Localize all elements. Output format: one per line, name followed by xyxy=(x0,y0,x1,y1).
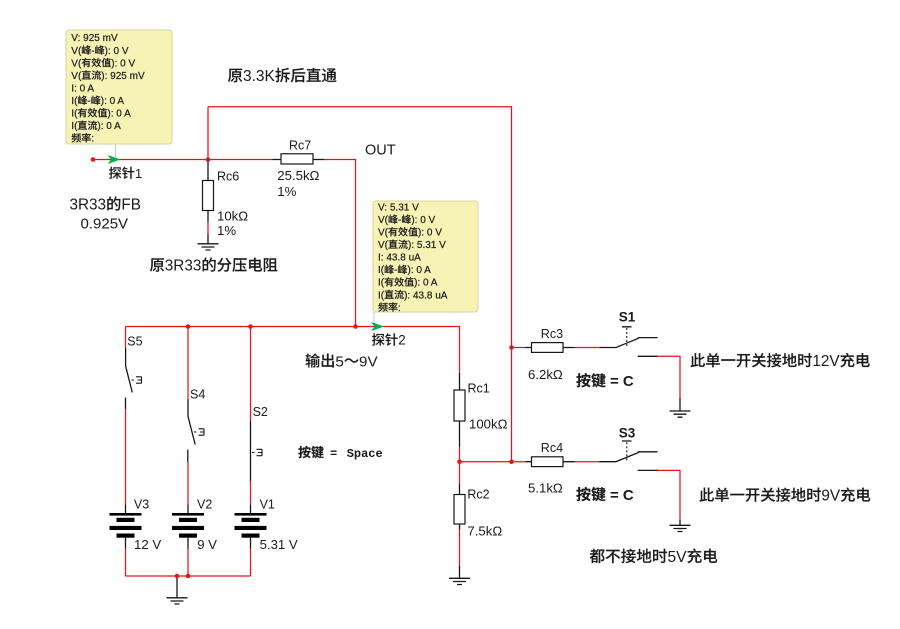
svg-text:V(: V( xyxy=(71,46,82,57)
svg-text:I(: I( xyxy=(378,290,385,301)
svg-text:Space: Space xyxy=(347,447,383,461)
svg-text:V: 925 mV: V: 925 mV xyxy=(71,33,118,44)
svg-text:9 V: 9 V xyxy=(197,537,217,552)
svg-text:12V: 12V xyxy=(812,353,840,370)
svg-text:): 0 V: ): 0 V xyxy=(111,58,135,69)
svg-text:V(: V( xyxy=(378,240,389,251)
svg-text:9V: 9V xyxy=(821,488,841,505)
svg-text:OUT: OUT xyxy=(365,143,396,159)
svg-text:I: 0 A: I: 0 A xyxy=(71,83,94,94)
svg-text:3R33: 3R33 xyxy=(165,258,202,275)
svg-text:): 0 A: ): 0 A xyxy=(97,121,121,132)
svg-text:S4: S4 xyxy=(190,388,205,402)
svg-text:5V: 5V xyxy=(668,549,688,566)
svg-text:I(: I( xyxy=(71,121,78,132)
svg-text:): 0 V: ): 0 V xyxy=(418,228,442,239)
svg-text:V1: V1 xyxy=(260,497,275,511)
svg-text:=: = xyxy=(330,447,337,461)
svg-text:): 43.8 uA: ): 43.8 uA xyxy=(404,290,448,301)
svg-text:V(: V( xyxy=(378,215,389,226)
svg-text:I(: I( xyxy=(71,96,78,107)
svg-text:): 5.31 V: ): 5.31 V xyxy=(408,240,446,251)
svg-text:-: - xyxy=(91,46,94,57)
svg-text:-: - xyxy=(394,265,397,276)
svg-text:): 0 A: ): 0 A xyxy=(414,278,438,289)
svg-text:): 0 A: ): 0 A xyxy=(107,109,131,120)
svg-text:9V: 9V xyxy=(359,353,378,370)
svg-text:S5: S5 xyxy=(127,334,142,348)
svg-text:= C: = C xyxy=(610,373,634,390)
svg-text:I: 43.8 uA: I: 43.8 uA xyxy=(378,253,421,264)
svg-text:S2: S2 xyxy=(253,405,268,419)
svg-text:Rc1: Rc1 xyxy=(468,381,490,395)
svg-text:5.1kΩ: 5.1kΩ xyxy=(528,480,563,495)
svg-text:S1: S1 xyxy=(619,310,636,325)
svg-text:): 0 A: ): 0 A xyxy=(407,265,431,276)
svg-text:2: 2 xyxy=(398,333,405,348)
svg-text::: : xyxy=(91,134,94,145)
svg-text:6.2kΩ: 6.2kΩ xyxy=(528,367,563,382)
svg-text:12 V: 12 V xyxy=(134,537,161,552)
svg-text:25.5kΩ: 25.5kΩ xyxy=(277,168,319,183)
svg-text:3.3K: 3.3K xyxy=(243,68,276,85)
svg-text:I(: I( xyxy=(71,109,78,120)
svg-text:100kΩ: 100kΩ xyxy=(469,417,508,432)
svg-text:V(: V( xyxy=(71,71,82,82)
svg-text:10kΩ: 10kΩ xyxy=(217,208,248,223)
svg-text:1%: 1% xyxy=(217,223,236,238)
svg-text:): 0 V: ): 0 V xyxy=(105,46,129,57)
svg-text:I(: I( xyxy=(378,278,385,289)
svg-text::: : xyxy=(398,303,401,314)
svg-text:5: 5 xyxy=(335,353,343,370)
svg-text:Rc7: Rc7 xyxy=(289,139,311,153)
svg-text:3R33: 3R33 xyxy=(70,197,107,214)
svg-text:Rc6: Rc6 xyxy=(217,170,239,184)
svg-text:0.925V: 0.925V xyxy=(81,216,129,233)
svg-text:V2: V2 xyxy=(197,497,212,511)
svg-text:V: 5.31 V: V: 5.31 V xyxy=(378,202,419,213)
svg-text:): 925 mV: ): 925 mV xyxy=(101,71,145,82)
svg-text:Rc3: Rc3 xyxy=(541,327,563,341)
svg-text:1%: 1% xyxy=(277,184,296,199)
svg-text:-: - xyxy=(398,215,401,226)
svg-text:V(: V( xyxy=(71,58,82,69)
svg-text:): 0 A: ): 0 A xyxy=(101,96,125,107)
svg-text:I(: I( xyxy=(378,265,385,276)
svg-text:5.31 V: 5.31 V xyxy=(260,537,298,552)
svg-text:Rc4: Rc4 xyxy=(541,441,563,455)
svg-text:1: 1 xyxy=(135,166,142,181)
svg-text:V3: V3 xyxy=(134,497,149,511)
svg-text:Rc2: Rc2 xyxy=(467,488,489,502)
svg-text:= C: = C xyxy=(610,487,634,504)
svg-text:-: - xyxy=(87,96,90,107)
svg-text:FB: FB xyxy=(121,197,141,214)
svg-text:7.5kΩ: 7.5kΩ xyxy=(467,523,502,538)
svg-text:): 0 V: ): 0 V xyxy=(411,215,435,226)
svg-text:V(: V( xyxy=(378,228,389,239)
svg-text:S3: S3 xyxy=(619,426,636,441)
